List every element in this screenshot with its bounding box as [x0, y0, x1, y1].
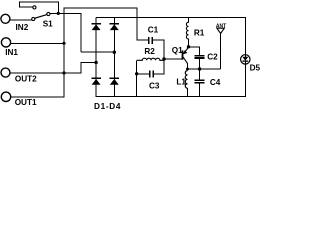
wire top rail: [64, 7, 138, 9]
svg-text:ANT: ANT: [216, 23, 226, 29]
terminal IN2: [1, 14, 10, 23]
switch S1 pole contact: [32, 17, 35, 20]
capacitor C4: [195, 79, 205, 81]
switch S1 throw contact: [47, 12, 50, 15]
svg-text:C3: C3: [149, 82, 160, 91]
capacitor C2: [195, 55, 205, 57]
wire emitter vertical: [187, 63, 189, 69]
svg-text:R2: R2: [144, 47, 155, 56]
node C2 C4: [198, 67, 201, 70]
wire C2 bottom lead: [199, 58, 201, 69]
wire antenna lead: [220, 33, 222, 69]
wire switch top loop: [20, 2, 59, 7]
wire W1 vertical to bridge: [80, 13, 82, 52]
wire D5 bottom: [244, 61, 246, 96]
wire C3 right lead: [154, 73, 164, 75]
terminal IN1: [1, 38, 10, 47]
svg-text:L1: L1: [176, 77, 186, 86]
wire D5 top: [244, 18, 246, 57]
node switch junction: [57, 12, 60, 15]
wire L1 bottom lead: [187, 88, 189, 96]
capacitor C1: [148, 37, 150, 44]
svg-text:OUT1: OUT1: [15, 98, 37, 107]
wire base lead: [164, 58, 183, 60]
node base bus junction: [162, 57, 165, 60]
wire junction up: [57, 2, 59, 15]
diode D2: [110, 24, 119, 30]
switch S1 lever: [35, 15, 47, 19]
antenna ANT: [217, 28, 224, 33]
node R1 collector junction: [187, 45, 190, 48]
wire OUT1: [11, 96, 65, 98]
wire C1 left lead: [137, 39, 148, 41]
diode D1: [91, 24, 100, 30]
resistor R2: [137, 58, 164, 60]
node emitter: [186, 68, 189, 71]
wire R1 node to C2: [189, 47, 200, 56]
svg-text:C4: C4: [210, 78, 221, 87]
node OUT2 junction: [62, 71, 65, 74]
wire C1 bus down from top rail: [136, 8, 138, 40]
transistor Q1: [183, 47, 189, 63]
capacitor C3: [149, 70, 151, 77]
inductor L1: [185, 71, 187, 89]
diode D4: [110, 78, 119, 84]
wire W1 horizontal to right bridge column: [81, 51, 114, 53]
node bridge AC right: [113, 51, 116, 54]
wire OUT2: [10, 72, 81, 74]
wire rail2: [96, 17, 246, 19]
terminal OUT1: [1, 92, 10, 101]
wire OUT2 step to bridge left: [81, 63, 96, 74]
wire L1 top lead: [187, 69, 189, 71]
bridge left column: [95, 18, 97, 98]
svg-text:OUT2: OUT2: [15, 74, 37, 83]
wire C3 bottom vertical to rail: [136, 74, 138, 97]
svg-text:C1: C1: [148, 26, 159, 35]
svg-text:IN2: IN2: [16, 23, 29, 32]
terminal OUT2: [1, 68, 10, 77]
bridge right column: [113, 18, 115, 98]
wire R1 bottom stem: [188, 40, 190, 48]
svg-text:IN1: IN1: [5, 48, 18, 57]
resistor R1: [186, 21, 188, 40]
svg-text:D5: D5: [250, 64, 261, 73]
wire bottom rail: [96, 96, 246, 98]
wire R2 left stub down: [136, 60, 138, 74]
switch S1 upper off contact: [33, 6, 36, 9]
svg-text:S1: S1: [43, 19, 53, 28]
LED D5: [241, 55, 250, 64]
node IN1 junction: [62, 42, 65, 45]
wire left bus vertical: [63, 8, 65, 97]
node C3 left: [135, 72, 138, 75]
wire emitter node line: [188, 68, 221, 70]
wire C1 right lead: [152, 39, 164, 41]
wire IN1: [11, 42, 65, 44]
wire throw to junction rail: [50, 12, 82, 14]
wire C4 top lead: [199, 69, 201, 80]
wire C4 bottom lead: [199, 83, 201, 97]
svg-text:D1-D4: D1-D4: [94, 102, 121, 111]
svg-text:R1: R1: [194, 28, 205, 37]
svg-text:Q1: Q1: [172, 46, 183, 55]
wire C3 left lead: [137, 73, 150, 75]
wire IN2 to switch pole: [10, 19, 32, 21]
svg-text:C2: C2: [207, 53, 218, 62]
wire base bus vertical: [163, 40, 165, 74]
wire R1 top stem: [188, 18, 190, 22]
node bridge left lower: [94, 61, 97, 64]
diode D3: [91, 78, 100, 84]
